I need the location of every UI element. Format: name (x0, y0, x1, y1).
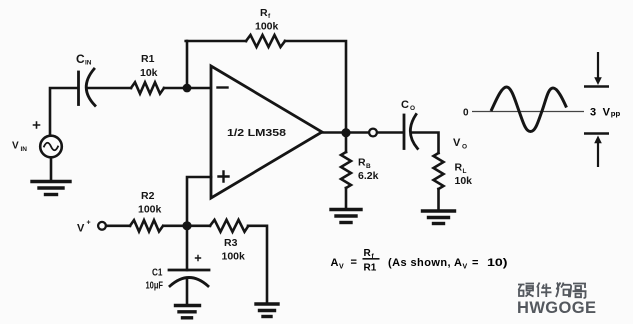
label R1 10k (140, 53, 158, 79)
svg-text:10μF: 10μF (146, 281, 164, 292)
svg-text:V: V (77, 223, 85, 235)
svg-text:O: O (462, 144, 467, 151)
wire R2 to node B and on to R3 (164, 225, 210, 228)
svg-text:L: L (463, 168, 467, 175)
label Rf 100k (255, 7, 279, 33)
resistor RB (341, 152, 351, 188)
wire V+ to R2 (106, 225, 130, 228)
svg-text:V: V (339, 264, 344, 271)
svg-text:R: R (364, 248, 372, 259)
svg-text:C1: C1 (152, 268, 163, 279)
resistor R2 (130, 220, 163, 231)
label 3 Vpp (590, 107, 621, 119)
resistor RL (434, 153, 444, 189)
svg-text:IN: IN (21, 146, 28, 153)
svg-text:V: V (463, 264, 468, 271)
svg-text:3 V: 3 V (590, 107, 611, 119)
svg-text:R: R (358, 157, 366, 169)
wire feedback top left segment (186, 40, 246, 43)
svg-text:A: A (331, 257, 339, 269)
svg-text:6.2k: 6.2k (358, 170, 379, 182)
waveform measure bars and arrows (584, 52, 609, 167)
wire CO to RL (411, 133, 439, 154)
wire VIN to CIN (50, 88, 77, 136)
svg-text:R2: R2 (141, 190, 155, 202)
svg-text:1/2 LM358: 1/2 LM358 (227, 127, 286, 139)
svg-text:10): 10) (487, 257, 508, 269)
label RL 10k (455, 162, 473, 188)
waveform sine (491, 87, 567, 132)
svg-text:R: R (260, 7, 268, 19)
wire R3 to ground (248, 226, 267, 304)
capacitor CO (404, 115, 418, 149)
resistor Rf (246, 35, 285, 47)
wire R1 to op-amp inverting input (164, 87, 211, 90)
label R3 100k (222, 237, 246, 263)
node output (341, 128, 350, 137)
svg-text:100k: 100k (222, 251, 246, 263)
svg-text:10k: 10k (140, 67, 158, 79)
wire node B to C1 (186, 226, 189, 270)
watermark HWGOGE (517, 299, 596, 317)
formula Av = Rf/R1 (As shown, Av = 10) (331, 248, 508, 274)
svg-text:100k: 100k (138, 204, 162, 216)
wire C1 to ground (186, 279, 189, 306)
wire op-amp output (322, 131, 403, 134)
svg-text:=: = (472, 257, 478, 269)
wire feedback top right segment (285, 41, 346, 131)
label 1/2 LM358 (227, 127, 286, 139)
svg-text:C: C (76, 52, 85, 66)
svg-text:=: = (351, 257, 357, 269)
terminal (open circle) on output (369, 129, 377, 137)
ground (RB) (331, 210, 361, 223)
ground (VIN) (32, 182, 70, 195)
svg-text:pp: pp (611, 109, 621, 118)
svg-text:V: V (12, 141, 19, 152)
terminal V+ (77, 220, 91, 235)
op-amp U1 (1/2 LM358) (211, 66, 322, 198)
svg-text:B: B (366, 163, 371, 170)
resistor R1 (131, 82, 164, 93)
resistor R3 (210, 220, 248, 232)
svg-text:R1: R1 (141, 53, 155, 65)
wire RB to ground (345, 188, 348, 209)
label CO (401, 99, 415, 112)
svg-text:0: 0 (463, 108, 469, 119)
svg-text:100k: 100k (255, 21, 279, 33)
svg-text:(As shown, A: (As shown, A (388, 257, 462, 269)
label R2 100k (138, 190, 162, 216)
label CIN (76, 52, 92, 67)
svg-text:HWGOGE: HWGOGE (517, 299, 596, 317)
wire CIN to R1 (87, 87, 131, 90)
svg-text:IN: IN (85, 60, 92, 67)
svg-text:C: C (401, 99, 409, 111)
svg-text:V: V (453, 137, 461, 149)
label C1 10uF (146, 256, 201, 292)
svg-text:R: R (455, 162, 463, 174)
voltage source VIN (40, 136, 62, 158)
capacitor CIN (79, 69, 96, 106)
watermark CJK 硬件狗哥 (drawn strokes) (518, 283, 587, 299)
capacitor C1 (169, 270, 209, 286)
wire node A up to feedback (186, 41, 189, 88)
wire node output to RB (345, 133, 348, 153)
ground (C1) (176, 306, 200, 318)
svg-text:R1: R1 (364, 263, 377, 274)
label RB 6.2k (358, 157, 379, 183)
wire RL to ground (437, 189, 440, 211)
node A (inverting input) (183, 84, 192, 93)
wire VIN to ground (50, 157, 53, 181)
wire op-amp noninverting input (187, 177, 211, 226)
svg-text:O: O (410, 105, 415, 112)
ground (R3) (256, 304, 278, 317)
label VO (453, 137, 467, 151)
svg-text:+: + (87, 220, 91, 227)
svg-text:10k: 10k (455, 175, 473, 187)
waveform axis 0 line (463, 108, 584, 119)
svg-text:R3: R3 (224, 237, 238, 249)
ground (RL) (423, 211, 455, 224)
node B (182, 221, 191, 230)
label VIN + polarity (12, 122, 40, 153)
